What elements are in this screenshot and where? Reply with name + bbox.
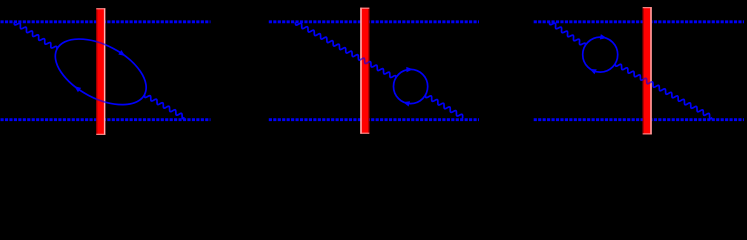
panel 2: fermion arrow (loop top) [406,67,413,72]
panel 3: fermion arrow (loop bottom) [590,69,597,74]
panel 1: cut bar overlay (translucent overlay to mute crossings) [96,8,105,135]
panel 1: fermion arrow (top arc) [118,50,125,56]
panel 3: photon wavy line (before loop) [550,22,586,46]
panel 2: source dotted line (top) [269,20,479,23]
panel 3: fermion arrow (loop top) [600,34,607,39]
panel 1: fermion arrow (bottom arc) [74,86,81,92]
panel 1: electron-positron loop (tilted ellipse) [45,26,157,119]
panel 2: vacuum-polarization loop (circle) [394,69,428,103]
panel 1: source dotted line (top) [1,20,211,23]
panel 2: cut bar overlay (translucent overlay to mute crossings) [360,8,369,134]
panel 3: source dotted line (bottom) [534,118,744,121]
panel 2: photon wavy line (after loop) [425,95,463,118]
panel 1: photon wavy line (top-left, incoming) [14,22,57,49]
panel 2: photon wavy line (before loop, crosses cut) [295,22,396,78]
panel 2: fermion arrow (loop bottom) [403,101,410,106]
panel 3: photon wavy line (after loop, crosses cut) [615,63,712,118]
panel 2: unitarity cut bar [360,8,369,134]
panel 3: unitarity cut bar [643,7,652,134]
panel 2: source dotted line (bottom) [269,118,479,121]
panel 1: source dotted line (bottom) [1,118,211,121]
panel 3: cut bar overlay (translucent overlay to mute crossings) [643,7,652,134]
panel 3: vacuum-polarization loop (circle) [583,37,618,72]
panel 1: photon wavy line (bottom-right, outgoing) [145,95,185,119]
panel 1: unitarity cut bar [96,8,105,135]
panel 3: source dotted line (top) [534,20,744,23]
